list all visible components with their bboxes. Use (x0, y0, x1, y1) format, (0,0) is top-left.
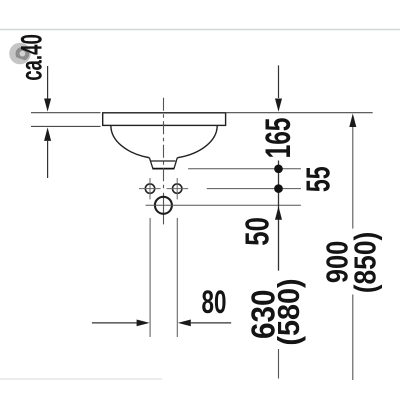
centerline solid through tap hole (163, 193, 165, 225)
reference line C through big circle (146, 204, 301, 206)
dimension line 900 (up arrow) (349, 114, 356, 128)
dimension arrow 80 right (left arrow) (178, 320, 191, 327)
centerline dashed (163, 98, 165, 190)
tap hole big circle (155, 197, 172, 214)
svg-text:50: 50 (239, 217, 276, 246)
dimension line 55 with dots (278, 161, 280, 271)
reference line B faucet level (207, 188, 301, 190)
svg-text:80: 80 (202, 284, 227, 320)
svg-text:(580): (580) (272, 278, 306, 345)
svg-text:165: 165 (260, 118, 298, 159)
top gray border line (0, 29, 400, 31)
dimension line ca.40 lower (up arrow) (44, 127, 51, 140)
extension line 80 left (149, 218, 151, 337)
faucet hole left circle (145, 184, 154, 193)
dimension line 630 lower segment (278, 349, 280, 379)
extension line rim bottom left (31, 125, 101, 127)
extension line rim top left (31, 112, 101, 114)
svg-text:55: 55 (300, 166, 337, 192)
reference line A drain level (188, 168, 301, 170)
dimension line 900 lower segment (352, 295, 354, 381)
faucet hole right circle (173, 184, 182, 193)
drain funnel sides (149, 158, 177, 169)
dimension arrow 50 (up arrow) (275, 206, 282, 220)
basin bowl left arc (111, 126, 150, 158)
basin rim (103, 113, 226, 126)
basin bowl right arc (177, 126, 217, 158)
drain funnel bottom (152, 168, 174, 170)
dimension arrow 80 left (right arrow) (92, 322, 137, 324)
svg-text:(850): (850) (348, 232, 382, 293)
faucet hole right crosshair (167, 188, 189, 190)
extension line rim top right (226, 112, 373, 114)
drain inner line (151, 160, 175, 162)
svg-text:ca.40: ca.40 (15, 34, 49, 81)
watermark logo (9, 43, 31, 65)
extension line 80 right (176, 218, 178, 337)
dimension line 165 (down arrow) (278, 65, 280, 98)
bottom faint line (0, 378, 162, 380)
faucet hole left crosshair (139, 188, 161, 190)
dimension line ca.40 upper (down arrow) (47, 66, 49, 99)
